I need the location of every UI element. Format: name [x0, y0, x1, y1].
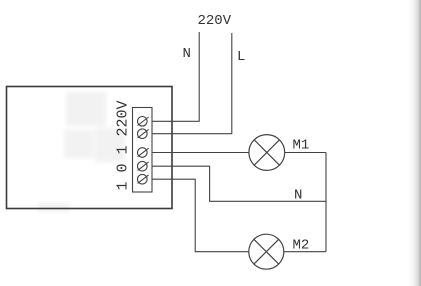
svg-text:1 0 1 220V: 1 0 1 220V [114, 100, 131, 190]
svg-text:M1: M1 [293, 138, 310, 154]
svg-text:L: L [237, 49, 245, 65]
svg-text:M2: M2 [293, 238, 310, 254]
svg-text:N: N [183, 46, 191, 62]
svg-text:N: N [294, 188, 302, 204]
svg-text:220V: 220V [198, 13, 232, 29]
